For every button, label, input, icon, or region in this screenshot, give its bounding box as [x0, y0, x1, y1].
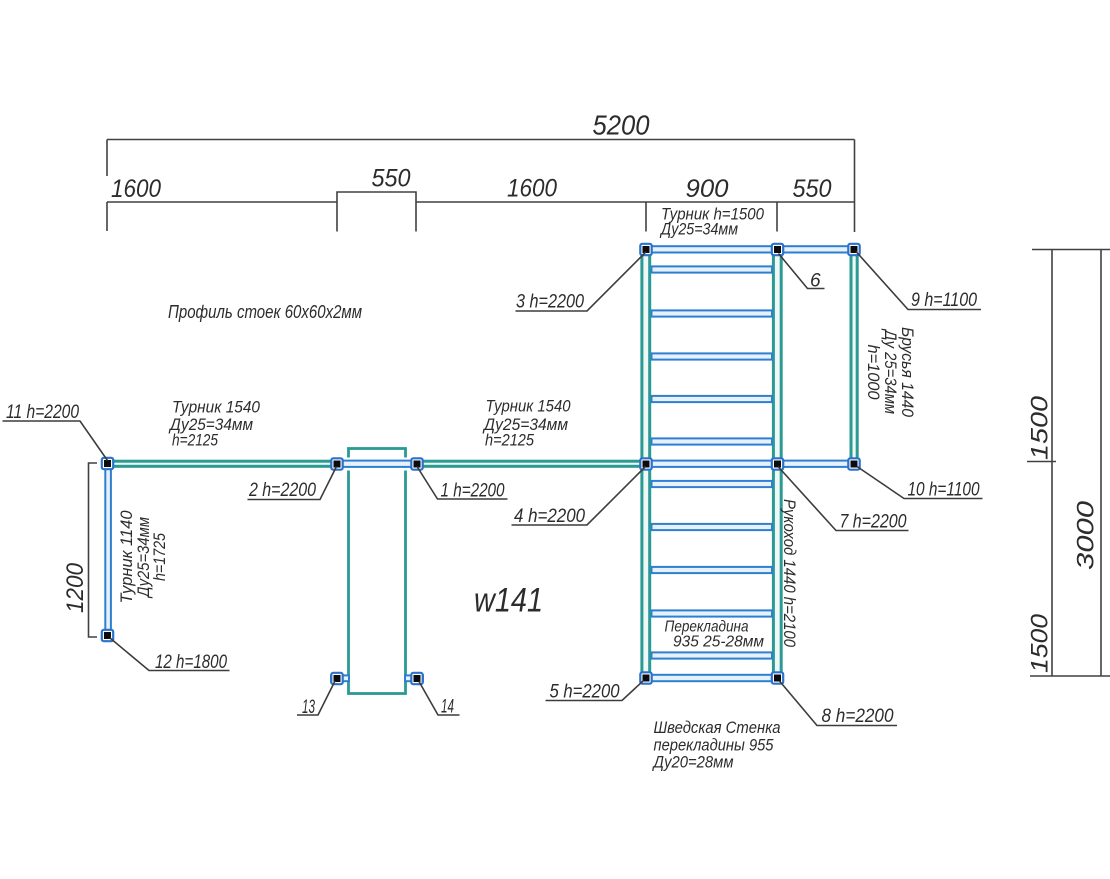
node 9 [848, 244, 859, 255]
svg-text:1600: 1600 [111, 175, 161, 203]
svg-text:Рукоход 1440 h=2100: Рукоход 1440 h=2100 [780, 499, 799, 647]
leader node 3 [516, 252, 647, 311]
right dim vertical 3000 [1100, 250, 1102, 677]
leader node 6 [779, 254, 825, 289]
leader node 8 [780, 681, 898, 726]
ramp post rectangle (teal outline) [349, 449, 406, 694]
svg-text:Турник 1540: Турник 1540 [172, 398, 260, 417]
dim line row2 right [416, 201, 855, 203]
svg-text:4 h=2200: 4 h=2200 [514, 506, 585, 527]
right dim middle tick [1027, 461, 1056, 463]
rung 2 [652, 310, 773, 316]
svg-text:5 h=2200: 5 h=2200 [550, 682, 620, 703]
svg-text:13: 13 [302, 697, 315, 718]
svg-text:7 h=2200: 7 h=2200 [840, 512, 907, 533]
node 11 [102, 458, 113, 469]
node 12 [102, 630, 113, 641]
svg-text:h=1000: h=1000 [864, 345, 882, 401]
note turnik1140 rotated [118, 510, 169, 604]
white gap where rail crosses ramp [345, 458, 409, 471]
leader node 14 [419, 682, 460, 716]
tick left 5200 [106, 140, 108, 177]
vertical bar node11-node12 (blue) [105, 464, 111, 635]
node 7 [772, 458, 783, 469]
svg-text:Турник 1540: Турник 1540 [486, 397, 571, 416]
rung 10 [652, 652, 773, 658]
svg-text:6: 6 [810, 271, 821, 292]
top rail (blue) [641, 246, 859, 252]
svg-text:550: 550 [372, 165, 411, 193]
svg-text:9 h=1100: 9 h=1100 [911, 290, 977, 311]
node 4 [640, 458, 651, 469]
tick x777 row2 [776, 202, 778, 232]
svg-text:1600: 1600 [507, 175, 557, 203]
right dim vertical 1500s [1051, 250, 1053, 677]
svg-text:10 h=1100: 10 h=1100 [908, 480, 980, 501]
rung 8 [652, 567, 773, 573]
node 3 [640, 244, 651, 255]
node 6 [772, 244, 783, 255]
svg-text:3 h=2200: 3 h=2200 [516, 292, 584, 313]
dim bump 550 [337, 192, 416, 232]
svg-text:Профиль стоек 60х60х2мм: Профиль стоек 60х60х2мм [168, 301, 362, 322]
node 1 [411, 458, 422, 469]
node 5 [640, 672, 651, 683]
svg-text:12 h=1800: 12 h=1800 [155, 652, 227, 673]
leader node 11 [3, 421, 108, 461]
svg-text:11 h=2200: 11 h=2200 [6, 402, 79, 423]
rung 9 [652, 610, 773, 616]
svg-text:Ду20=28мм: Ду20=28мм [652, 753, 734, 772]
right dim bottom horizontal [1030, 675, 1110, 677]
leader node 9 [856, 252, 981, 310]
node 10 [848, 458, 859, 469]
middle rail (blue) [641, 461, 859, 467]
svg-text:Ду 25=34мм: Ду 25=34мм [881, 328, 899, 414]
horizontal bar (Turnik 1540 left span, teal) [107, 461, 338, 466]
svg-text:5200: 5200 [593, 110, 650, 141]
svg-text:14: 14 [441, 697, 454, 718]
brusya outer post (teal) [851, 248, 857, 462]
rung 1 [652, 266, 773, 272]
note brusya rotated [864, 327, 916, 418]
stub node13 (blue) [331, 675, 349, 681]
svg-text:3000: 3000 [1073, 500, 1100, 570]
svg-text:8 h=2200: 8 h=2200 [822, 706, 894, 727]
dim line 5200 [107, 139, 855, 141]
svg-text:2 h=2200: 2 h=2200 [248, 480, 316, 501]
svg-text:h=2125: h=2125 [172, 431, 218, 450]
leader node 4 [512, 467, 646, 526]
node 2 [331, 458, 342, 469]
bottom rail (blue) [641, 675, 783, 681]
leader node 2 [248, 467, 337, 500]
leader node 13 [297, 681, 335, 715]
svg-text:Шведская Стенка: Шведская Стенка [654, 718, 781, 737]
svg-text:Ду25=34мм: Ду25=34мм [659, 221, 738, 239]
svg-text:1 h=2200: 1 h=2200 [441, 481, 505, 502]
rung 4 [652, 396, 773, 402]
svg-text:h=1725: h=1725 [151, 532, 169, 581]
svg-text:Брусья 1440: Брусья 1440 [898, 327, 916, 418]
rung 7 [652, 524, 773, 530]
leader node 7 [778, 467, 909, 531]
leader node 12 [110, 638, 230, 671]
leader node 10 [857, 467, 983, 499]
leader node 1 [417, 467, 508, 500]
svg-text:935 25-28мм: 935 25-28мм [673, 634, 764, 651]
node 13 [331, 673, 342, 684]
node 14 [411, 673, 422, 684]
dim line row2 left [107, 201, 337, 203]
svg-text:h=2125: h=2125 [485, 431, 534, 450]
stub node14 (blue) [405, 675, 423, 681]
svg-text:1200: 1200 [62, 562, 89, 613]
rung 3 [652, 353, 773, 359]
horizontal bar (Turnik 1540 right span, teal) [416, 461, 646, 466]
svg-text:900: 900 [686, 175, 729, 203]
svg-text:w141: w141 [474, 582, 543, 620]
rung 6 [652, 481, 773, 487]
wire blue rail node2-node1 through ramp [334, 461, 420, 467]
right dim top horizontal [1032, 249, 1110, 251]
ladder left post (teal) [642, 248, 650, 679]
tick right 5200 [854, 140, 856, 233]
svg-text:550: 550 [793, 175, 832, 203]
node 8 [772, 672, 783, 683]
leader node 5 [546, 681, 644, 701]
svg-text:1500: 1500 [1027, 613, 1054, 673]
bracket 1200 [89, 463, 98, 637]
tick x646 row2 [645, 202, 647, 232]
svg-text:Турник 1140: Турник 1140 [118, 510, 136, 604]
ladder right post (teal) [773, 248, 781, 679]
svg-text:1500: 1500 [1027, 395, 1054, 460]
rung 5 [652, 438, 773, 444]
tick x107 row2 [106, 202, 108, 231]
